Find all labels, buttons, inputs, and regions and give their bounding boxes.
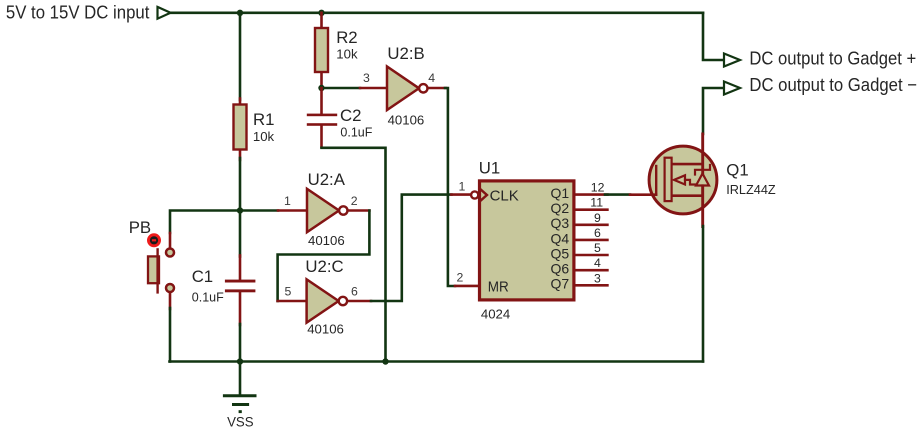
svg-text:Q2: Q2 [551,200,570,216]
node: DC output - terminal arrow [724,82,740,95]
wire: junction to U2:B input [322,87,361,90]
junction at R2/C2/U2:B pin3 [318,85,324,91]
pin 1 CLK input bubble [451,193,470,196]
svg-text:DC output to Gadget −: DC output to Gadget − [749,74,917,95]
PB actuator [148,256,159,283]
wire: U2:A output Z to U2:C input [278,211,370,302]
op-amp U2:A inverter [278,170,369,248]
svg-text:U2:B: U2:B [387,44,424,63]
svg-text:4: 4 [594,256,601,270]
svg-text:Q7: Q7 [551,276,570,292]
svg-text:40106: 40106 [388,113,425,128]
capacitor C2 [307,88,373,147]
svg-text:Q1: Q1 [551,185,570,201]
resistor R2 [315,13,358,88]
pin 2 MR input [455,285,479,288]
op-amp U2:C inverter [278,257,371,336]
svg-text:2: 2 [351,194,358,208]
svg-text:11: 11 [590,196,603,210]
wire: PB bottom to ground rail [169,308,172,362]
wire: Q1 source to ground rail [702,226,705,362]
svg-text:Q3: Q3 [551,215,570,231]
svg-text:2: 2 [457,271,464,285]
capacitor C1 [192,211,256,326]
svg-text:Q5: Q5 [551,245,570,261]
svg-text:U1: U1 [479,158,500,177]
svg-text:5: 5 [594,241,601,255]
svg-text:0.1uF: 0.1uF [192,289,224,304]
svg-text:3: 3 [594,271,601,285]
wire: R1 bottom to U2:A input row [239,158,242,211]
wire: C2 bottom to ground rail [322,148,386,362]
svg-text:10k: 10k [253,129,275,144]
svg-text:40106: 40106 [307,321,344,336]
wire: U2:C output up to U1 CLK [371,195,451,301]
wire: bottom ground rail [170,360,704,363]
svg-text:5: 5 [285,284,292,298]
svg-text:CLK: CLK [490,188,519,205]
svg-text:12: 12 [591,181,605,195]
svg-text:Q1: Q1 [726,160,748,179]
svg-text:9: 9 [594,211,601,225]
node: DC output + terminal arrow [724,54,740,67]
wire: rail corner down to + output [703,13,723,60]
svg-text:R2: R2 [336,28,357,47]
svg-text:0.1uF: 0.1uF [340,124,372,139]
svg-text:R1: R1 [253,110,274,129]
svg-text:4: 4 [428,71,435,85]
op-amp U2:B inverter [360,44,446,127]
svg-text:Q4: Q4 [551,230,570,246]
wire: drain to - output [703,88,723,134]
input terminal arrow [158,7,171,19]
svg-text:C2: C2 [340,106,361,125]
channel bars [673,163,703,166]
svg-text:6: 6 [594,226,601,240]
wire: rail down to R1 [239,13,242,100]
svg-text:U2:A: U2:A [308,170,346,189]
svg-text:4024: 4024 [481,307,510,322]
svg-text:DC output to Gadget +: DC output to Gadget + [749,48,916,69]
wire: PB top / U2:A input row [170,211,278,234]
body diode [696,174,709,186]
wire: U1 Q1 pin12 to Q1 gate [605,193,630,196]
junction on rail at R1 [237,10,243,16]
svg-text:PB: PB [129,218,151,237]
gate plate [665,158,672,201]
svg-text:VSS: VSS [227,414,254,430]
svg-text:IRLZ44Z: IRLZ44Z [726,182,776,197]
junction at R1/C1/U2:A input [237,207,243,213]
transistor Q1 IRLZ44Z [630,134,776,227]
svg-text:10k: 10k [336,47,358,62]
junction rail/C1 [237,358,243,364]
wire: C1 bottom to ground rail [239,324,242,362]
svg-text:3: 3 [363,71,370,85]
svg-text:5V to 15V DC input: 5V to 15V DC input [6,2,150,23]
svg-text:6: 6 [351,284,358,298]
substrate arrow [674,175,685,184]
svg-text:Q6: Q6 [551,261,570,277]
svg-text:C1: C1 [192,267,213,286]
PB leads and terminals [169,233,172,248]
output pins Q1-Q7 [576,195,608,286]
resistor R1 [234,99,275,161]
svg-text:1: 1 [459,180,466,194]
IC U1 4024 [451,158,607,321]
wire: top VDD rail [171,12,704,15]
svg-text:MR: MR [488,278,509,295]
junction rail/C2 net [382,358,388,364]
svg-text:1: 1 [284,194,291,208]
ground VSS symbol [224,362,255,430]
wire: U2:B output down to U1 MR [445,88,455,286]
svg-text:U2:C: U2:C [305,257,343,276]
PB red cap [147,233,161,247]
drain-source vertical [701,134,704,227]
push button PB [129,218,174,309]
junction on rail at R2 [318,10,324,16]
svg-text:40106: 40106 [308,233,345,248]
gate pin [630,193,656,196]
